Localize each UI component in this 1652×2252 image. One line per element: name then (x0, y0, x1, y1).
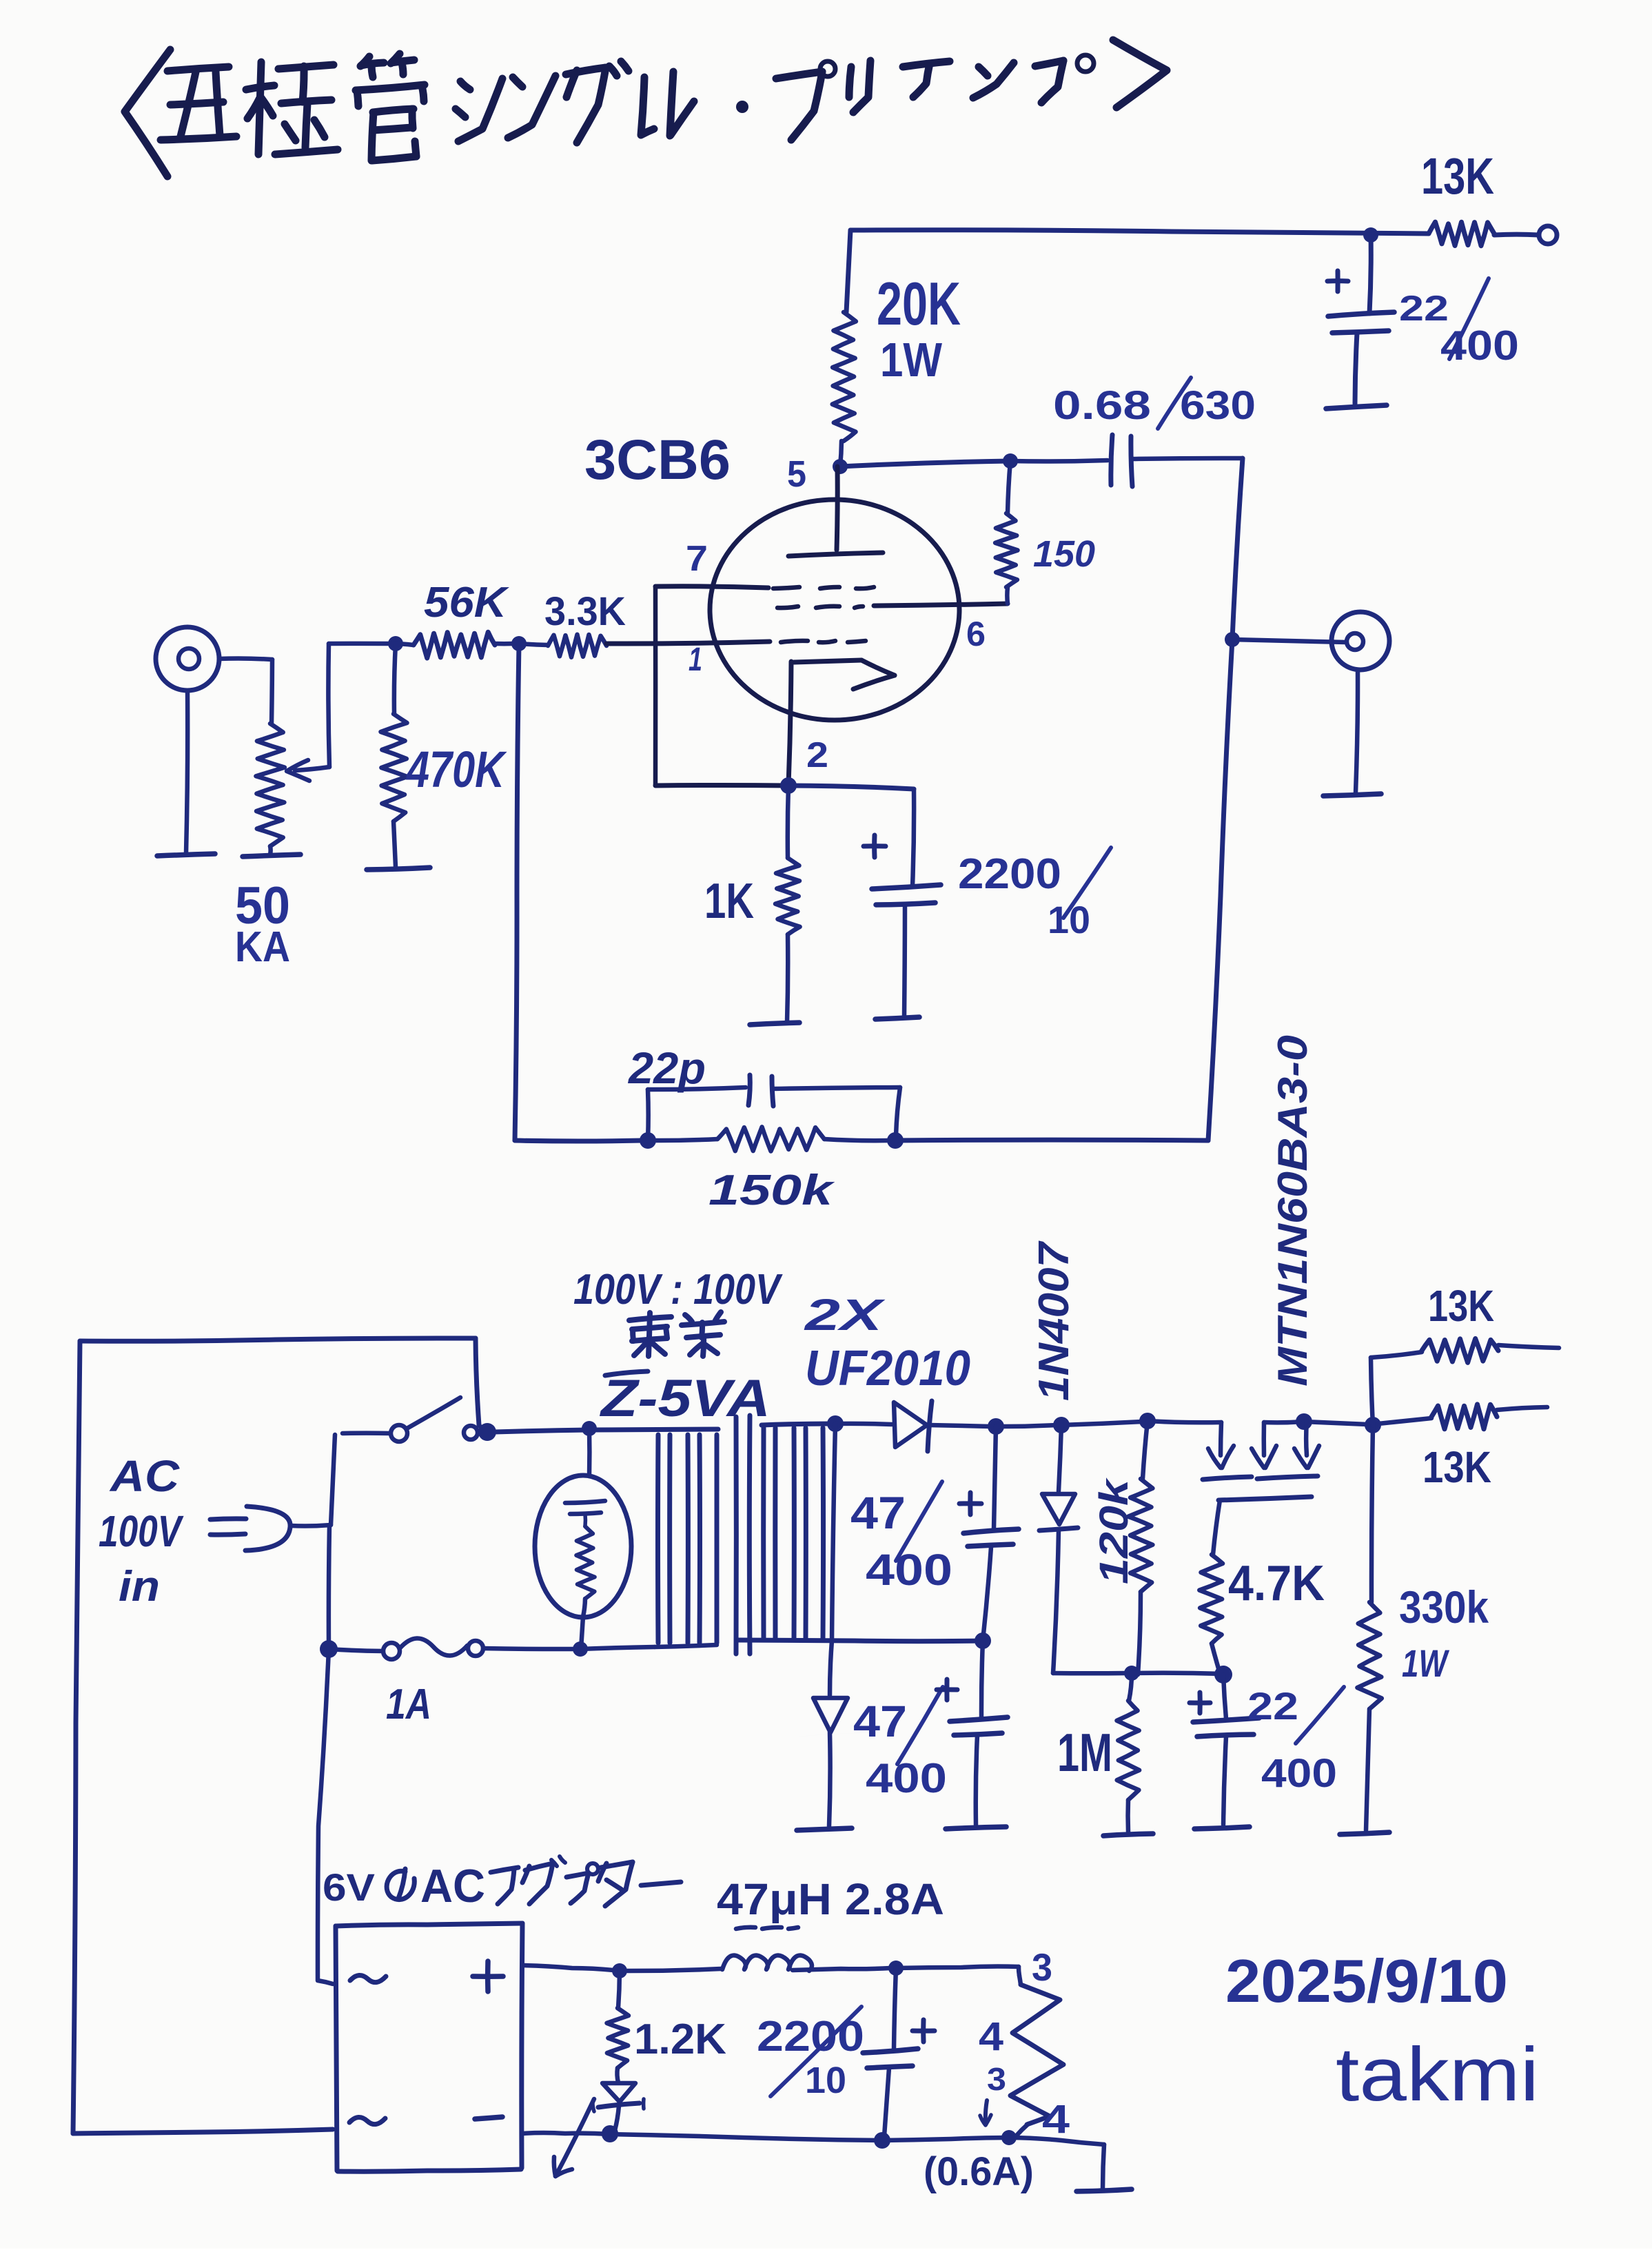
svg-text:4: 4 (1042, 2097, 1070, 2142)
svg-text:470K: 470K (405, 741, 507, 798)
svg-text:2: 2 (806, 735, 828, 775)
svg-text:1: 1 (689, 642, 702, 678)
svg-text:630: 630 (1180, 383, 1256, 428)
svg-text:5: 5 (787, 453, 806, 495)
svg-text:6V: 6V (323, 1865, 375, 1909)
svg-text:Z-5VA: Z-5VA (600, 1369, 771, 1428)
svg-text:47μH 2.8A: 47μH 2.8A (717, 1874, 944, 1924)
svg-text:120k: 120k (1092, 1477, 1136, 1584)
svg-text:AC: AC (420, 1860, 485, 1912)
svg-text:400: 400 (1440, 323, 1519, 369)
svg-text:1N4007: 1N4007 (1030, 1240, 1078, 1401)
svg-text:400: 400 (1261, 1751, 1337, 1796)
svg-text:2200: 2200 (958, 850, 1061, 898)
svg-text:10: 10 (805, 2060, 846, 2101)
svg-text:1A: 1A (386, 1681, 431, 1728)
svg-text:in: in (119, 1563, 160, 1610)
svg-text:3.3K: 3.3K (544, 589, 626, 634)
svg-text:0.68: 0.68 (1053, 383, 1151, 428)
svg-text:330k: 330k (1399, 1581, 1489, 1632)
svg-text:100V : 100V: 100V : 100V (573, 1266, 783, 1313)
svg-text:13K: 13K (1422, 1442, 1491, 1492)
svg-text:UF2010: UF2010 (805, 1341, 970, 1396)
svg-text:10: 10 (1048, 898, 1090, 941)
svg-text:400: 400 (866, 1755, 947, 1801)
svg-text:4: 4 (979, 2014, 1003, 2059)
svg-text:AC: AC (109, 1451, 180, 1501)
svg-text:4.7K: 4.7K (1228, 1556, 1325, 1611)
svg-text:1W: 1W (1402, 1641, 1449, 1685)
svg-text:22p: 22p (628, 1043, 706, 1093)
svg-text:2X: 2X (804, 1290, 886, 1340)
svg-text:100V: 100V (99, 1506, 184, 1556)
svg-text:22: 22 (1247, 1684, 1298, 1728)
svg-text:56K: 56K (424, 579, 509, 626)
svg-text:KA: KA (235, 923, 290, 971)
svg-text:1.2K: 1.2K (634, 2016, 726, 2063)
svg-text:20K: 20K (877, 269, 961, 338)
svg-text:47: 47 (850, 1487, 906, 1538)
svg-text:1M: 1M (1057, 1722, 1112, 1783)
svg-text:150: 150 (1033, 533, 1095, 575)
svg-text:takmi: takmi (1336, 2032, 1539, 2117)
svg-text:47: 47 (853, 1697, 907, 1746)
svg-text:7: 7 (686, 539, 708, 579)
svg-text:13K: 13K (1428, 1281, 1494, 1331)
svg-text:3CB6: 3CB6 (584, 429, 731, 491)
svg-text:150k: 150k (708, 1167, 836, 1214)
svg-text:13K: 13K (1421, 147, 1494, 205)
svg-text:MTN1N60BA3-0: MTN1N60BA3-0 (1269, 1035, 1316, 1386)
svg-text:(0.6A): (0.6A) (924, 2149, 1034, 2194)
svg-text:3: 3 (987, 2061, 1006, 2097)
svg-text:3: 3 (1032, 1945, 1052, 1989)
svg-text:1K: 1K (704, 874, 754, 929)
svg-text:1W: 1W (880, 333, 942, 387)
svg-text:400: 400 (866, 1545, 952, 1595)
svg-text:2025/9/10: 2025/9/10 (1225, 1947, 1508, 2015)
svg-text:6: 6 (966, 615, 986, 653)
